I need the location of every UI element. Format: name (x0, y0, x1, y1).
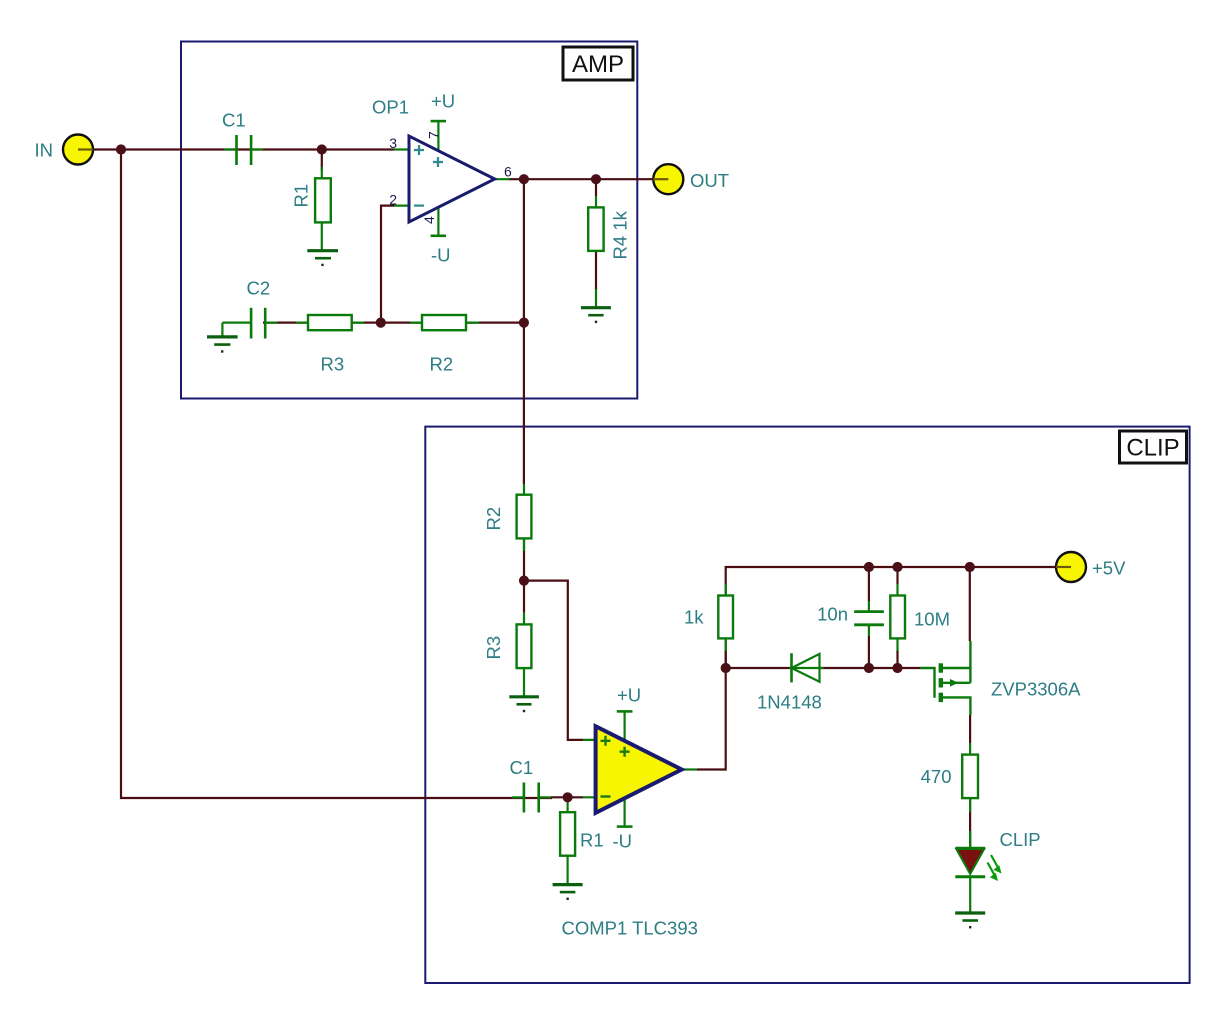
resistor R3 (CLIP) (517, 613, 532, 697)
node op-amp output (519, 174, 529, 184)
wire pin2 feedback (381, 206, 394, 323)
svg-text:R2: R2 (483, 507, 504, 531)
svg-text:2: 2 (389, 191, 397, 207)
resistor 10M (890, 584, 905, 651)
node R2-R3 divider (CLIP) (519, 576, 529, 586)
svg-text:6: 6 (504, 163, 512, 179)
node MOSFET source top (965, 562, 975, 572)
svg-text:C2: C2 (247, 278, 271, 299)
node R2 feedback junction (519, 318, 529, 328)
terminal OUT (653, 164, 683, 194)
AMP label box (563, 47, 633, 80)
resistor 1k (718, 584, 733, 651)
terminal +5V (1056, 552, 1086, 582)
resistor R3 (AMP) (296, 315, 364, 330)
diode D1 1N4148 (790, 653, 824, 682)
svg-text:1k: 1k (684, 607, 704, 628)
node C1-R1 (CLIP) (563, 792, 573, 802)
resistor R1 (CLIP) (560, 797, 575, 884)
node 10n top (864, 562, 874, 572)
node 10M top (892, 562, 902, 572)
pin 7 (OP1 V+) (426, 131, 442, 139)
comparator U2 COMP1 (583, 711, 697, 826)
svg-text:3: 3 (389, 135, 397, 151)
wire R1 tap (321, 150, 323, 171)
node R4 tap (591, 174, 601, 184)
wire 10n top lead (868, 567, 870, 601)
resistor R2 (CLIP) (517, 484, 532, 551)
capacitor C2 (222, 308, 277, 339)
svg-text:ZVP3306A: ZVP3306A (991, 679, 1081, 700)
ground (below R1 AMP) (307, 251, 338, 265)
svg-text:R1: R1 (580, 830, 604, 851)
AMP block frame (181, 42, 637, 399)
wire CLIP R2 to junction (523, 538, 525, 612)
wire lower rail (726, 667, 920, 669)
wire R4 bottom lead (595, 251, 597, 290)
wire R4 top lead (595, 179, 597, 196)
svg-text:R1: R1 (291, 184, 312, 208)
pin 4 (OP1 V-) (421, 216, 437, 224)
resistor R4 (588, 196, 603, 308)
svg-text:CLIP: CLIP (1000, 829, 1041, 850)
ground (below R3 CLIP) (509, 697, 539, 711)
node R3-R2 junction (376, 318, 386, 328)
svg-text:R2: R2 (430, 354, 454, 375)
ground (below R1 CLIP) (553, 885, 583, 899)
capacitor C1 (CLIP) (512, 783, 551, 813)
resistor R2 (AMP) (410, 315, 479, 330)
wire top rail to +5V (726, 566, 1071, 568)
svg-text:IN: IN (35, 140, 54, 161)
svg-text:10M: 10M (914, 609, 950, 630)
svg-text:CLIP: CLIP (1126, 435, 1179, 462)
svg-text:10n: 10n (817, 604, 848, 625)
svg-text:OUT: OUT (690, 170, 729, 191)
svg-text:R4 1k: R4 1k (610, 210, 631, 259)
CLIP block frame (425, 427, 1189, 983)
wire comparator output up to rail (697, 566, 726, 770)
ground (C2) (207, 337, 238, 352)
CLIP label box (1120, 431, 1187, 463)
wire IN to op-amp pin3 (78, 148, 394, 150)
wire 10M top lead (896, 567, 898, 584)
node IN tap (116, 144, 126, 154)
terminal IN (63, 135, 93, 165)
capacitor 10n (854, 601, 884, 636)
ground (below LED) (955, 913, 985, 927)
wire CLIP C1 to comparator minus input (551, 796, 583, 798)
svg-text:470: 470 (921, 766, 952, 787)
LED CLIP (955, 831, 985, 913)
svg-text:C1: C1 (222, 110, 246, 131)
wire 10n bottom lead (868, 636, 870, 668)
svg-text:+U: +U (431, 91, 455, 112)
ground (below R4) (581, 308, 611, 322)
node 10n bottom (864, 663, 874, 673)
svg-text:R3: R3 (483, 636, 504, 660)
op-amp U1 OP1 (394, 121, 510, 236)
svg-text:COMP1 TLC393: COMP1 TLC393 (562, 918, 698, 939)
wire R3-R2 row (263, 322, 524, 324)
svg-text:R3: R3 (321, 354, 345, 375)
svg-text:7: 7 (426, 131, 442, 139)
svg-text:+U: +U (617, 685, 641, 706)
LED arrows (988, 855, 1002, 881)
resistor 470 (962, 743, 978, 812)
svg-text:OP1: OP1 (372, 97, 409, 118)
resistor R1 (AMP) (315, 167, 331, 251)
wire op-amp output to OUT (508, 178, 668, 180)
svg-text:AMP: AMP (572, 51, 624, 78)
node 10M bottom (892, 663, 902, 673)
transistor Q1 ZVP3306A (920, 641, 970, 715)
wire 1k bottom to lower rail (725, 650, 727, 668)
wire output down-feed to CLIP R2 (523, 179, 525, 484)
svg-text:4: 4 (421, 216, 437, 224)
wire MOSFET drain to 470 (969, 715, 971, 743)
svg-text:-U: -U (613, 831, 633, 852)
wire 10M bottom lead (896, 650, 898, 668)
wire 470 to LED (969, 798, 971, 831)
wire junction to comparator plus input (524, 581, 583, 740)
wire IN down-feed to CLIP C1 (121, 150, 552, 799)
wire MOSFET source from rail (969, 567, 971, 641)
svg-text:+5V: +5V (1092, 558, 1126, 579)
node comparator output rail (721, 663, 731, 673)
svg-text:1N4148: 1N4148 (757, 692, 822, 713)
capacitor C1 (AMP) (224, 135, 263, 165)
svg-text:-U: -U (431, 245, 451, 266)
node R1 tap (317, 144, 327, 154)
svg-text:C1: C1 (510, 757, 534, 778)
